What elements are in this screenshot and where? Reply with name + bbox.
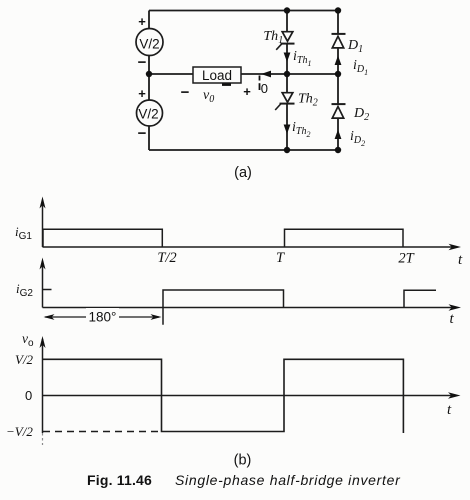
svg-text:Fig. 11.46: Fig. 11.46 (87, 472, 152, 488)
thyristor Th2 (275, 93, 294, 110)
thyristor Th1 (276, 32, 294, 50)
wire D2 anode to bottom rail (337, 118, 339, 151)
diode D1 (332, 34, 346, 48)
caption (87, 472, 401, 488)
wire Th1 anode from top rail (286, 11, 288, 32)
wire node O to load (149, 73, 193, 75)
current arrow iTh1 (284, 53, 291, 63)
svg-text:(b): (b) (234, 453, 252, 469)
v0 waveform (43, 359, 403, 433)
wire node A to Th2 anode (286, 74, 288, 93)
svg-text:+: + (138, 14, 146, 29)
current arrow i0 on load wire (261, 71, 271, 78)
wire top rail (149, 10, 338, 12)
svg-text:V/2: V/2 (139, 36, 159, 51)
node D branch bottom dot (335, 147, 341, 153)
svg-text:2T: 2T (398, 251, 414, 267)
wire D1 cathode from top rail (337, 11, 339, 34)
v0 vertical axis (40, 336, 46, 445)
wire node B to D2 cathode (337, 74, 339, 104)
iG1 pulse 0 to T/2 (43, 229, 162, 247)
current arrow iD2 (335, 130, 342, 140)
wire Th2 cathode to bottom rail (286, 104, 288, 151)
svg-text:Load: Load (202, 68, 232, 83)
current arrow iTh2 (284, 125, 291, 135)
source V/2 lower (137, 100, 163, 126)
iG1 pulse T to 2T (285, 229, 404, 247)
label i0 (260, 76, 269, 97)
svg-text:V/2: V/2 (15, 352, 34, 367)
svg-text:V/2: V/2 (138, 106, 158, 121)
svg-text:Single-phase half-bridge inver: Single-phase half-bridge inverter (175, 472, 401, 488)
wire node A to node B (287, 73, 338, 75)
svg-text:T: T (276, 250, 285, 266)
wire node O to V2 (148, 74, 150, 101)
node A junction dot (284, 71, 290, 77)
label 180 degrees (86, 308, 119, 323)
svg-text:−: − (138, 125, 147, 142)
iG2 pulse at 2T (404, 290, 436, 307)
node Th branch bottom dot (284, 147, 290, 153)
iG2 vertical axis (40, 258, 46, 308)
svg-text:+: + (243, 84, 251, 99)
scan mark under load box (222, 84, 231, 86)
wire bottom rail (149, 149, 338, 151)
svg-text:+: + (138, 86, 146, 101)
iG2 pulse T/2 to T (163, 290, 284, 325)
svg-text:T/2: T/2 (157, 250, 176, 266)
svg-text:180°: 180° (89, 310, 117, 325)
iG2 time axis (43, 304, 462, 310)
load box (193, 67, 241, 83)
svg-text:0: 0 (261, 81, 268, 96)
svg-text:−V/2: −V/2 (6, 424, 33, 439)
iG2 level tick (43, 289, 52, 291)
iG1 time axis (43, 244, 462, 250)
v0 time axis (43, 392, 461, 398)
source V/2 upper (136, 29, 163, 56)
diode D2 (332, 104, 346, 118)
node top rail right corner dot (335, 7, 341, 13)
wire Th1 cathode to node A (286, 44, 288, 75)
wire between V1 and node O (148, 56, 150, 75)
wire V2 to bottom rail (148, 126, 150, 151)
node top rail Th branch dot (284, 7, 290, 13)
wire load to node A (241, 73, 287, 75)
dimension arrow 180 degrees (44, 314, 162, 320)
current arrow iD1 (335, 56, 342, 66)
iG1 vertical axis (40, 197, 46, 248)
svg-text:−: − (138, 54, 147, 71)
node O junction dot (146, 71, 152, 77)
node B junction dot (335, 71, 341, 77)
svg-text:(a): (a) (234, 165, 252, 181)
v0 dashed -V/2 level (43, 431, 161, 433)
svg-text:−: − (181, 84, 190, 101)
svg-text:0: 0 (25, 388, 32, 403)
wire D1 anode to node B (337, 48, 339, 74)
wire left branch upper (148, 11, 150, 29)
